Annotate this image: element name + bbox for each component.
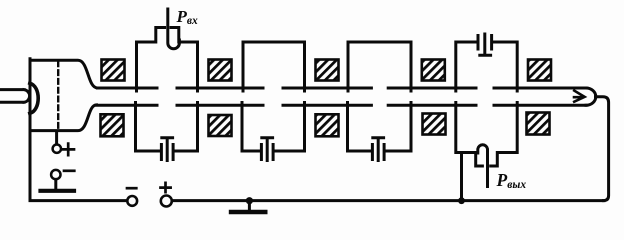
tuning capacitor C1 plunger: [162, 138, 173, 161]
wire bottom bus left segment: [30, 199, 127, 202]
resonator 4 upper half with top tuning capacitor: [456, 42, 517, 91]
cathode K (emitting arc): [30, 83, 38, 113]
collector chevron: [574, 91, 585, 102]
node junction dot (cavity 4 to bus): [458, 197, 465, 204]
ground bar: [231, 210, 265, 214]
magnet pole piece 5 top: [528, 60, 551, 81]
input coupling loop feed: [168, 9, 180, 49]
resonator 1 upper half with input coupling chimney: [137, 28, 198, 92]
magnet pole piece 5 bottom: [527, 113, 550, 135]
magnet pole piece 1 bottom: [101, 114, 124, 136]
drift tube upper line segments: [98, 87, 587, 90]
gun bottom edge tapering to drift tube: [30, 105, 97, 131]
terminal + (gun) stem: [55, 131, 58, 144]
magnet pole piece 3 top: [316, 60, 339, 81]
focusing electrode (dashed): [57, 62, 59, 130]
ground junction dot: [246, 197, 253, 204]
tuning capacitor C3 plates: [372, 145, 384, 160]
gun top edge tapering to drift tube: [30, 60, 98, 88]
magnet pole piece 2 bottom: [209, 115, 232, 136]
wire collector return riser: [596, 97, 609, 201]
label - (gun): [64, 169, 74, 172]
magnet pole piece 4 top: [422, 60, 445, 81]
battery terminal + circle: [161, 196, 172, 207]
tuning capacitor C1 plates: [161, 145, 173, 160]
battery terminal - circle: [127, 196, 137, 206]
magnet pole piece 1 top: [102, 60, 125, 81]
terminal - (gun) chassis bar: [41, 189, 75, 193]
tuning capacitor C4 plates: [478, 36, 492, 50]
label + (battery): [161, 183, 171, 192]
tuning capacitor C4 plunger: [480, 34, 491, 55]
magnet pole piece 4 bottom: [423, 114, 446, 135]
resonator 3 upper half: [348, 42, 411, 91]
ground stem: [248, 201, 251, 210]
magnet pole piece 3 bottom: [316, 114, 339, 136]
resonator 2 lower half: [242, 103, 305, 152]
terminal - (gun) stem: [54, 179, 57, 188]
collector electrode cap: [586, 88, 596, 105]
tuning capacitor C2 plunger: [262, 138, 273, 161]
drift tube lower line segments: [97, 104, 587, 107]
tuning capacitor C3 plunger: [373, 138, 384, 161]
resonator 4 lower half with output notch: [456, 103, 517, 167]
heater filament leads: [1, 90, 30, 103]
resonator 2 upper half: [243, 42, 305, 91]
magnet pole piece 2 top: [209, 60, 232, 81]
resonator 1 lower half: [136, 103, 198, 152]
label - (battery): [127, 187, 136, 190]
electron gun envelope left wall / wire down: [29, 59, 32, 199]
terminal - (gun) circle: [51, 170, 60, 179]
tuning capacitor C2 plates: [261, 145, 273, 160]
wire cavity 4 body to bus: [460, 153, 463, 200]
resonator 3 lower half: [348, 103, 412, 152]
output coupling loop and feed: [478, 145, 488, 187]
terminal + (gun) circle: [53, 145, 61, 153]
label + (gun): [62, 144, 74, 156]
wire bottom bus main segment: [172, 199, 604, 202]
